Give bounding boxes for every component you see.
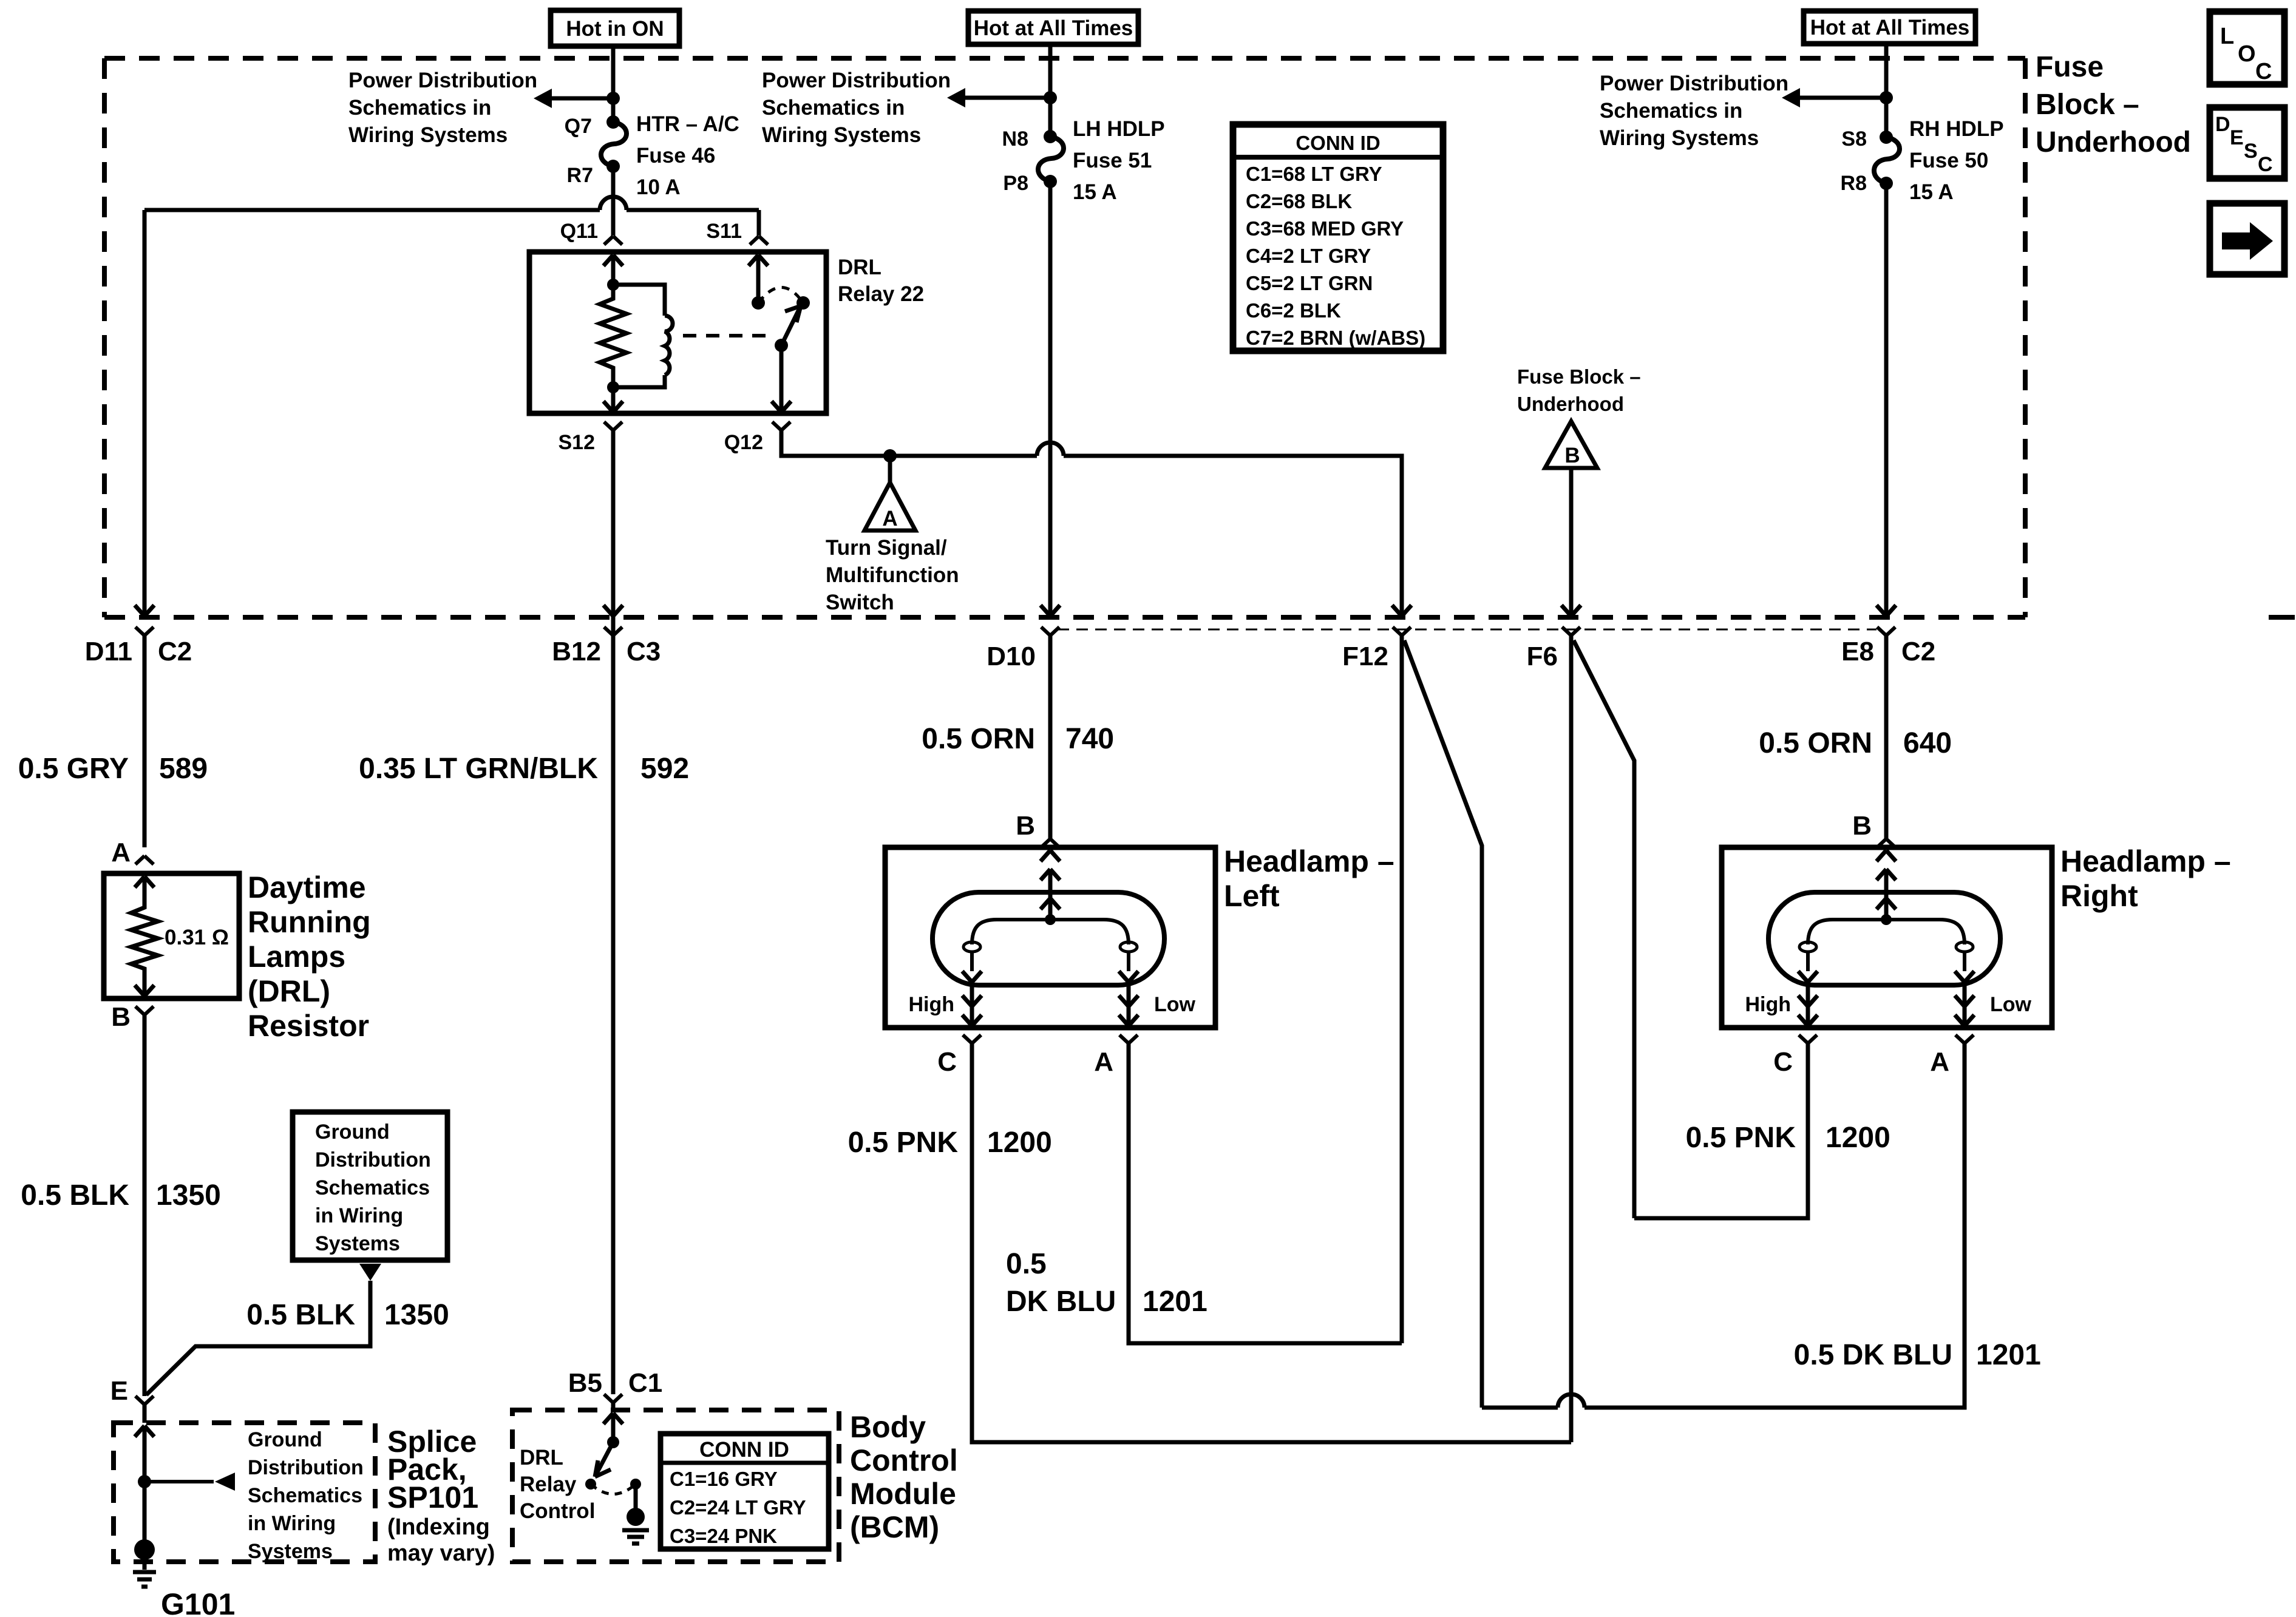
- svg-text:may vary): may vary): [387, 1541, 495, 1566]
- splice branch to other grounds with arrow: [144, 1473, 235, 1491]
- connector fork F6: [1562, 627, 1580, 636]
- connector fork B12/C3: [604, 627, 622, 636]
- label: Headlamp - Right: [2060, 844, 2231, 913]
- svg-text:Fuse 46: Fuse 46: [636, 144, 715, 168]
- svg-text:E8: E8: [1841, 637, 1874, 666]
- wire: Hot at All Times feed to fuse 50: [1884, 44, 1889, 137]
- node: coil bottom: [607, 381, 619, 393]
- svg-text:Switch: Switch: [826, 591, 894, 614]
- connector fork E8/C2: [1877, 627, 1895, 636]
- left headlamp B entry arrows: [1041, 850, 1060, 920]
- dashed throw arc of BCM switch: [591, 1484, 636, 1494]
- node: switch common: [752, 296, 765, 310]
- svg-text:Low: Low: [1990, 993, 2032, 1016]
- resistor R 0.31 ohm element: [131, 876, 158, 996]
- right low beam filament: [1955, 942, 1974, 982]
- svg-text:C3=24 PNK: C3=24 PNK: [670, 1525, 777, 1547]
- svg-text:C3=68 MED GRY: C3=68 MED GRY: [1246, 217, 1404, 240]
- svg-text:Fuse 51: Fuse 51: [1073, 149, 1152, 172]
- value label: RH HDLP Fuse 50 15 A: [1909, 117, 2004, 204]
- svg-text:C1=16 GRY: C1=16 GRY: [670, 1468, 778, 1490]
- left high beam exit arrows: [962, 982, 982, 1026]
- wire: left headlamp C high beam to F6: [972, 1043, 1571, 1442]
- svg-text:15 A: 15 A: [1073, 180, 1117, 204]
- relay coil output pin arrow (S12): [603, 401, 623, 412]
- svg-text:C4=2 LT GRY: C4=2 LT GRY: [1246, 245, 1371, 267]
- node: switch arm pivot: [775, 339, 788, 352]
- svg-text:D10: D10: [987, 642, 1036, 671]
- svg-text:0.5: 0.5: [1006, 1248, 1047, 1280]
- connector arrow at B12: [603, 605, 623, 616]
- wire: switch common lead: [756, 255, 761, 303]
- connector fork C left headlamp: [963, 1035, 981, 1043]
- svg-text:Systems: Systems: [315, 1232, 400, 1255]
- svg-text:Underhood: Underhood: [1517, 393, 1624, 415]
- wire: Hot at All Times feed to fuse 51: [1048, 44, 1053, 137]
- svg-text:B: B: [111, 1002, 131, 1032]
- svg-text:C3: C3: [627, 637, 661, 666]
- label: Daytime Running Lamps (DRL) Resistor: [248, 870, 371, 1043]
- junction node on fuse 50 feed: [1880, 91, 1893, 104]
- svg-text:1350: 1350: [384, 1299, 449, 1331]
- left low beam exit arrows: [1119, 982, 1138, 1026]
- svg-text:G101: G101: [161, 1587, 235, 1617]
- svg-text:Underhood: Underhood: [2036, 126, 2191, 158]
- svg-text:A: A: [111, 838, 131, 867]
- svg-text:(Indexing: (Indexing: [387, 1514, 490, 1540]
- wire label: 0.35 LT GRN/BLK 592: [359, 753, 689, 785]
- svg-text:Q7: Q7: [565, 115, 592, 138]
- svg-text:Body: Body: [850, 1410, 926, 1444]
- text: Power Distribution Schematics in Wiring Systems (left): [348, 69, 537, 147]
- svg-text:1200: 1200: [987, 1127, 1052, 1159]
- ground distribution reference box: [293, 1112, 447, 1260]
- connector fork E: [135, 1396, 154, 1405]
- svg-text:Running: Running: [248, 905, 371, 939]
- svg-text:0.5 GRY: 0.5 GRY: [18, 753, 129, 785]
- svg-text:C: C: [2258, 153, 2273, 176]
- dashed mechanical link coil to switch: [683, 334, 772, 337]
- svg-text:Right: Right: [2060, 879, 2138, 913]
- connector arrow at F12: [1392, 605, 1411, 616]
- fuse F51 LH HDLP element: [1038, 130, 1064, 188]
- off-page triangle from ground distribution: [359, 1264, 381, 1281]
- svg-text:Hot in ON: Hot in ON: [566, 17, 664, 41]
- wire label: 0.5 DK BLU 1201 (right): [1794, 1339, 2041, 1371]
- svg-text:C: C: [2255, 59, 2272, 84]
- value label: HTR - A/C Fuse 46 10 A: [636, 112, 739, 199]
- node: BCM ground contact: [630, 1479, 641, 1490]
- left low beam filament: [1119, 942, 1138, 982]
- wire: fuse 46 output distribution bus: [144, 195, 759, 616]
- BCM internal ground node: [627, 1508, 645, 1526]
- svg-text:(DRL): (DRL): [248, 974, 330, 1008]
- right bulb common node: [1881, 914, 1892, 925]
- svg-text:Ground: Ground: [315, 1120, 390, 1144]
- svg-text:C2=68 BLK: C2=68 BLK: [1246, 190, 1352, 212]
- svg-text:B12: B12: [552, 637, 601, 666]
- svg-text:B: B: [1564, 444, 1580, 467]
- svg-text:S8: S8: [1841, 127, 1867, 151]
- svg-text:Systems: Systems: [248, 1540, 333, 1563]
- wire: ground distribution branch to splice E: [146, 1281, 370, 1395]
- wire: fuse 51 output down to connector D10: [1048, 181, 1053, 616]
- svg-text:C7=2 BRN (w/ABS): C7=2 BRN (w/ABS): [1246, 327, 1425, 349]
- right headlamp bulb housing: [1768, 892, 2000, 985]
- svg-text:Schematics in: Schematics in: [1600, 99, 1742, 123]
- text: Power Distribution Schematics in Wiring Systems (right): [1600, 72, 1788, 150]
- label: Body Control Module (BCM): [850, 1410, 958, 1544]
- text: Fuse Block - Underhood (triangle B label): [1517, 365, 1641, 415]
- svg-text:C1=68 LT GRY: C1=68 LT GRY: [1246, 163, 1382, 185]
- svg-text:740: 740: [1065, 723, 1114, 755]
- label box: Hot at All Times (right): [1804, 11, 1975, 44]
- DRL resistor box: [104, 873, 239, 998]
- off-page arrow to power distribution (middle fuse): [947, 88, 1050, 107]
- right bulb internal frame: [1808, 920, 1965, 944]
- wire: Hot in ON feed down to fuse 46: [611, 46, 616, 122]
- dashed throw arc of relay switch: [758, 288, 803, 303]
- connector fork B5/C1: [604, 1394, 622, 1403]
- svg-text:C6=2 BLK: C6=2 BLK: [1246, 299, 1341, 322]
- svg-text:Q11: Q11: [560, 220, 598, 243]
- ground symbol G101: [133, 1550, 156, 1587]
- BCM input arrow: [603, 1413, 623, 1424]
- connector fork A at DRL resistor: [135, 856, 154, 864]
- svg-text:High: High: [1745, 993, 1791, 1016]
- wire label: 0.5 BLK 1350 (main): [21, 1179, 221, 1212]
- svg-text:S: S: [2244, 140, 2258, 163]
- connector fork S12: [604, 422, 622, 430]
- svg-text:C2=24 LT GRY: C2=24 LT GRY: [670, 1496, 806, 1519]
- relay switch common input arrow (S11): [749, 255, 768, 266]
- node: DRL relay control driver: [607, 1436, 619, 1448]
- wire: D10 to left headlamp B: [1048, 636, 1053, 839]
- left bulb common node: [1045, 914, 1056, 925]
- svg-text:1201: 1201: [1976, 1339, 2041, 1371]
- wire: D11 to DRL resistor A: [143, 636, 147, 847]
- fuse block underhood dashed outline box: [104, 58, 2295, 617]
- left headlamp bulb housing: [932, 892, 1164, 985]
- BCM switch arm with arrow: [595, 1442, 613, 1477]
- svg-text:Schematics: Schematics: [315, 1176, 430, 1199]
- svg-text:C1: C1: [628, 1368, 662, 1398]
- svg-text:B: B: [1016, 811, 1035, 841]
- svg-text:15 A: 15 A: [1909, 180, 1954, 204]
- svg-text:D: D: [2215, 113, 2230, 136]
- connector fork B left headlamp: [1041, 839, 1059, 847]
- svg-text:Left: Left: [1224, 879, 1280, 913]
- svg-text:Power Distribution: Power Distribution: [1600, 72, 1788, 95]
- svg-text:Wiring Systems: Wiring Systems: [348, 123, 508, 147]
- text: Ground Distribution Schematics in Wiring Systems (splice): [248, 1428, 364, 1563]
- svg-text:0.35 LT GRN/BLK: 0.35 LT GRN/BLK: [359, 753, 598, 785]
- wire: fuse 46 output to bus: [611, 166, 616, 195]
- label: Splice Pack SP101: [387, 1425, 495, 1566]
- svg-text:0.5 PNK: 0.5 PNK: [1686, 1122, 1796, 1154]
- right headlamp box: [1722, 847, 2052, 1028]
- wire: coil bottom lead to S12: [611, 387, 616, 412]
- svg-text:Relay 22: Relay 22: [838, 282, 924, 306]
- svg-text:S12: S12: [559, 431, 596, 454]
- connector fork B at DRL resistor: [135, 1006, 154, 1015]
- connector arrow at F6: [1561, 605, 1581, 616]
- fine dashed connector line under fuse block: [1058, 629, 1877, 631]
- wire: right headlamp C high beam to F6 diagonal: [1634, 1043, 1808, 1218]
- connector fork D11/C2: [135, 627, 154, 636]
- connector fork A right headlamp: [1955, 1035, 1974, 1043]
- wire: E8 to right headlamp B: [1884, 636, 1889, 839]
- connector arrow at E8: [1877, 605, 1896, 616]
- wire: F6 diagonal branch to right high beam: [1574, 640, 1634, 1218]
- wire: right headlamp A low beam over to F12 diagonal: [1482, 1043, 1965, 1408]
- wire: left headlamp A low beam to F12: [1129, 1043, 1402, 1343]
- splice junction node: [138, 1475, 151, 1488]
- svg-text:A: A: [1094, 1047, 1113, 1077]
- left bulb internal frame: [972, 920, 1129, 944]
- svg-text:0.5 BLK: 0.5 BLK: [246, 1299, 355, 1331]
- svg-text:Headlamp –: Headlamp –: [1224, 844, 1394, 878]
- left headlamp box: [885, 847, 1215, 1028]
- label box: Hot at All Times (left): [968, 11, 1138, 44]
- svg-text:HTR – A/C: HTR – A/C: [636, 112, 739, 136]
- text: Power Distribution Schematics in Wiring Systems (middle): [762, 69, 951, 147]
- big CONN ID table: [1233, 124, 1443, 351]
- svg-text:Wiring Systems: Wiring Systems: [1600, 126, 1759, 150]
- ground G101 terminal node: [134, 1539, 155, 1560]
- off-page arrow to power distribution (right fuse): [1782, 88, 1886, 107]
- svg-text:Ground: Ground: [248, 1428, 322, 1451]
- connector fork S11: [750, 236, 768, 245]
- svg-text:D11: D11: [85, 637, 132, 666]
- svg-text:Hot at All Times: Hot at All Times: [1810, 16, 1970, 39]
- connector fork C right headlamp: [1799, 1035, 1817, 1043]
- label: Headlamp - Left: [1224, 844, 1394, 913]
- svg-text:Control: Control: [850, 1443, 958, 1477]
- wire: F12 branch down to left low beam: [1400, 636, 1404, 1343]
- relay K22 DRL relay box: [529, 252, 826, 413]
- splice input arrow: [135, 1426, 154, 1437]
- svg-text:C5=2 LT GRN: C5=2 LT GRN: [1246, 272, 1373, 294]
- svg-text:E: E: [110, 1376, 128, 1406]
- right headlamp B entry arrows: [1877, 850, 1896, 920]
- svg-text:0.31 Ω: 0.31 Ω: [165, 926, 229, 949]
- svg-text:CONN ID: CONN ID: [699, 1438, 789, 1462]
- svg-text:Schematics in: Schematics in: [762, 96, 905, 120]
- title: Fuse Block - Underhood: [2036, 51, 2191, 158]
- svg-text:Relay: Relay: [520, 1473, 577, 1496]
- relay switch output pin arrow (Q12): [772, 401, 791, 412]
- svg-text:RH HDLP: RH HDLP: [1909, 117, 2004, 141]
- connector fork D10: [1041, 627, 1059, 636]
- svg-text:Distribution: Distribution: [248, 1456, 364, 1479]
- svg-text:1350: 1350: [156, 1179, 221, 1212]
- svg-text:592: 592: [640, 753, 689, 785]
- node: BCM switch contact: [585, 1479, 596, 1490]
- node: coil top: [607, 279, 619, 291]
- wire: F6 down to left high beam feed corner: [1569, 636, 1574, 1442]
- svg-text:Wiring Systems: Wiring Systems: [762, 123, 921, 147]
- svg-text:Fuse Block –: Fuse Block –: [1517, 365, 1641, 388]
- wire label: 0.5 PNK 1200 (left): [848, 1127, 1052, 1159]
- svg-text:Power Distribution: Power Distribution: [348, 69, 537, 92]
- wire: B5 into BCM: [611, 1403, 616, 1411]
- svg-text:0.5 ORN: 0.5 ORN: [922, 723, 1035, 755]
- connector fork Q11: [604, 236, 622, 245]
- svg-text:Schematics in: Schematics in: [348, 96, 491, 120]
- svg-text:C2: C2: [158, 637, 192, 666]
- svg-text:Low: Low: [1154, 993, 1196, 1016]
- svg-text:CONN ID: CONN ID: [1296, 132, 1380, 154]
- connector fork A left headlamp: [1119, 1035, 1138, 1043]
- svg-text:10 A: 10 A: [636, 175, 681, 199]
- label: DRL Relay 22: [838, 256, 924, 306]
- right low beam exit arrows: [1955, 982, 1974, 1026]
- wire label: 0.5 BLK 1350 (branch): [246, 1299, 449, 1331]
- svg-text:589: 589: [159, 753, 208, 785]
- svg-text:(BCM): (BCM): [850, 1510, 939, 1544]
- label: DRL Relay Control: [520, 1446, 595, 1523]
- svg-text:E: E: [2230, 126, 2244, 149]
- connector fork F12: [1393, 627, 1411, 636]
- svg-text:C: C: [937, 1047, 957, 1077]
- svg-text:0.5 BLK: 0.5 BLK: [21, 1179, 129, 1212]
- svg-text:A: A: [1930, 1047, 1949, 1077]
- svg-text:Schematics: Schematics: [248, 1484, 362, 1507]
- node: switch normally-open contact: [796, 296, 810, 310]
- fuse F50 RH HDLP element: [1874, 131, 1900, 190]
- svg-text:Headlamp –: Headlamp –: [2060, 844, 2231, 878]
- wire: splice internal lead: [143, 1426, 147, 1542]
- DESC reference box: [2210, 107, 2284, 178]
- svg-text:Resistor: Resistor: [248, 1009, 369, 1043]
- relay coil L1: [613, 285, 673, 387]
- svg-text:Multifunction: Multifunction: [826, 563, 959, 587]
- resistor inside relay (coil suppression): [600, 285, 627, 387]
- svg-text:F6: F6: [1527, 642, 1558, 671]
- BCM CONN ID table: [661, 1434, 829, 1549]
- svg-text:S11: S11: [706, 220, 742, 243]
- svg-text:B: B: [1852, 811, 1872, 841]
- svg-text:1201: 1201: [1143, 1286, 1207, 1318]
- wire label: 0.5 ORN 740: [922, 723, 1114, 755]
- relay coil input pin arrow (Q11): [603, 255, 623, 266]
- svg-text:Fuse: Fuse: [2036, 51, 2104, 83]
- svg-text:in Wiring: in Wiring: [315, 1204, 403, 1227]
- svg-text:Fuse 50: Fuse 50: [1909, 149, 1988, 172]
- svg-text:Block –: Block –: [2036, 89, 2139, 121]
- wire label: 0.5 PNK 1200 (right): [1686, 1122, 1890, 1154]
- connector arrow at D11: [135, 605, 154, 616]
- splice pack SP101 dashed box: [114, 1423, 375, 1562]
- wire: DRL resistor B down to splice E: [143, 1015, 147, 1396]
- wire label: 0.5 GRY 589: [18, 753, 208, 785]
- svg-text:F12: F12: [1342, 642, 1388, 671]
- wire: switch output lead to Q12: [779, 345, 784, 412]
- svg-text:DK BLU: DK BLU: [1006, 1286, 1116, 1318]
- svg-text:P8: P8: [1003, 172, 1028, 195]
- svg-text:B5: B5: [568, 1368, 602, 1398]
- right high beam filament: [1798, 942, 1818, 982]
- svg-text:640: 640: [1903, 727, 1952, 759]
- wire: relay coil top lead: [611, 255, 616, 285]
- svg-text:1200: 1200: [1826, 1122, 1890, 1154]
- connector fork B right headlamp: [1877, 839, 1895, 847]
- svg-text:A: A: [882, 507, 897, 531]
- junction node on fuse 46 feed: [606, 92, 620, 105]
- off-page triangle B (fuse block underhood): [1545, 421, 1597, 468]
- junction node to turn signal switch: [883, 449, 897, 463]
- svg-text:0.5 PNK: 0.5 PNK: [848, 1127, 959, 1159]
- svg-text:O: O: [2238, 41, 2256, 67]
- next-page arrow box: [2210, 203, 2284, 274]
- svg-text:0.5 ORN: 0.5 ORN: [1759, 727, 1872, 759]
- wire: E into splice pack: [143, 1405, 147, 1423]
- BCM dashed box: [512, 1410, 839, 1562]
- value label: LH HDLP Fuse 51 15 A: [1073, 117, 1165, 204]
- wire label: 0.5 ORN 640: [1759, 727, 1952, 759]
- label box: Hot in ON: [551, 10, 679, 46]
- svg-text:Hot at All Times: Hot at All Times: [974, 16, 1133, 40]
- svg-text:Q12: Q12: [724, 431, 763, 454]
- LOC reference box: [2210, 12, 2284, 84]
- wire: BCM internal lead: [611, 1413, 616, 1442]
- wire: Q12 over to F12: [781, 430, 1402, 616]
- text: Turn Signal / Multifunction Switch: [826, 536, 959, 614]
- relay switch arm with arrow: [781, 306, 801, 345]
- wire: F12 diagonal branch to right low beam: [1404, 640, 1482, 1408]
- fuse F46 HTR A/C element: [601, 115, 627, 173]
- connector fork Q12: [772, 422, 790, 430]
- svg-text:L: L: [2220, 24, 2234, 49]
- svg-text:Control: Control: [520, 1499, 595, 1523]
- svg-text:Daytime: Daytime: [248, 870, 366, 904]
- svg-text:Lamps: Lamps: [248, 940, 345, 974]
- svg-text:in Wiring: in Wiring: [248, 1512, 336, 1535]
- svg-text:Power Distribution: Power Distribution: [762, 69, 951, 92]
- wire: fuse 50 output down to connector E8: [1884, 183, 1889, 616]
- right high beam exit arrows: [1798, 982, 1818, 1026]
- left high beam filament: [962, 942, 982, 982]
- BCM internal ground symbol: [622, 1530, 649, 1544]
- off-page triangle A (turn signal / multifunction switch): [864, 483, 915, 531]
- svg-text:Distribution: Distribution: [315, 1148, 431, 1171]
- svg-text:0.5 DK BLU: 0.5 DK BLU: [1794, 1339, 1952, 1371]
- svg-text:Module: Module: [850, 1477, 956, 1511]
- svg-text:C: C: [1773, 1047, 1793, 1077]
- svg-text:DRL: DRL: [520, 1446, 563, 1470]
- svg-text:N8: N8: [1002, 127, 1028, 151]
- svg-text:Turn Signal/: Turn Signal/: [826, 536, 947, 560]
- wire: contact to internal ground: [634, 1484, 638, 1517]
- svg-text:LH HDLP: LH HDLP: [1073, 117, 1165, 141]
- wire label: 0.5 DK BLU 1201 (left): [1006, 1248, 1207, 1318]
- svg-text:R7: R7: [567, 164, 593, 187]
- wire: S12 down to BCM B5: [611, 430, 616, 1394]
- svg-text:R8: R8: [1841, 172, 1867, 195]
- wire: triangle B down to F6: [1569, 468, 1574, 616]
- wire: stub to triangle A: [888, 456, 892, 483]
- svg-text:High: High: [908, 993, 954, 1016]
- junction node on fuse 51 feed: [1044, 91, 1057, 104]
- off-page arrow to power distribution (left fuse): [534, 89, 613, 108]
- svg-text:C2: C2: [1901, 637, 1935, 666]
- connector arrow at D10: [1041, 605, 1060, 616]
- svg-text:DRL: DRL: [838, 256, 881, 279]
- svg-text:SP101: SP101: [387, 1480, 478, 1514]
